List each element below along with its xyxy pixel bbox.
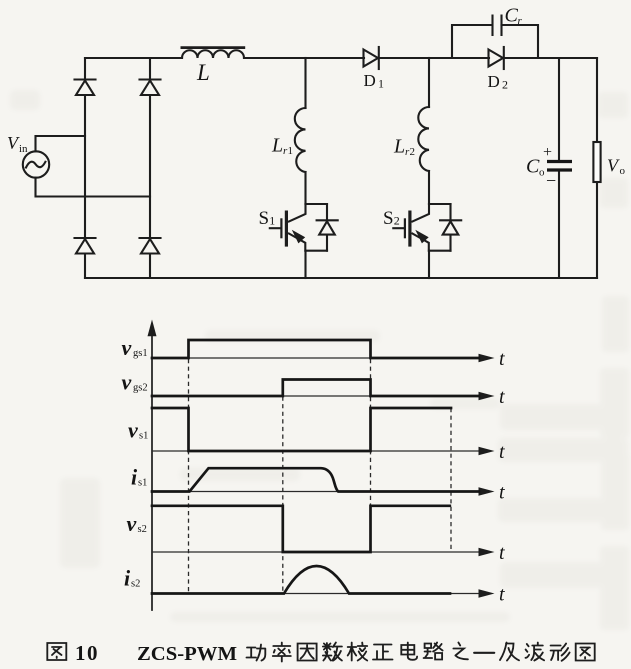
svg-text:L: L	[196, 60, 210, 85]
svg-text:v: v	[122, 335, 132, 360]
caption char 波	[526, 643, 545, 661]
caption figure number 图	[47, 643, 66, 660]
axis vertical	[151, 334, 153, 610]
wire bridge left leg	[84, 58, 86, 278]
svg-text:2: 2	[410, 146, 416, 158]
svg-text:D: D	[364, 71, 376, 90]
svg-text:t: t	[499, 348, 505, 370]
diode bridge bottom-right	[140, 238, 161, 254]
svg-text:C: C	[505, 5, 519, 27]
svg-text:+: +	[543, 144, 552, 161]
svg-text:i: i	[131, 465, 138, 490]
axis t row5	[152, 548, 495, 557]
wire Lr1 to S1	[304, 172, 306, 204]
caption char 校	[348, 643, 368, 661]
svg-text:r: r	[518, 15, 523, 27]
node Lr2 tee	[428, 58, 430, 107]
svg-text:in: in	[19, 143, 28, 155]
svg-text:gs1: gs1	[133, 348, 148, 359]
diode D2	[489, 47, 504, 69]
svg-text:s2: s2	[131, 579, 140, 590]
svg-text:10: 10	[75, 641, 98, 665]
caption char 路	[424, 643, 443, 660]
svg-text:2: 2	[502, 78, 508, 92]
svg-text:ZCS-PWM: ZCS-PWM	[137, 643, 237, 665]
caption char 电	[401, 643, 417, 660]
svg-text:D: D	[488, 72, 500, 91]
svg-text:s1: s1	[138, 478, 147, 489]
timing dashed line t2	[370, 359, 372, 552]
svg-text:C: C	[526, 156, 540, 178]
diode D1	[364, 47, 379, 69]
svg-text:o: o	[620, 165, 626, 177]
timing dashed line t1	[282, 397, 284, 594]
axis t row3	[152, 447, 495, 456]
axis t row6	[152, 589, 495, 598]
caption char 率	[273, 643, 291, 662]
svg-text:t: t	[499, 482, 505, 504]
svg-text:t: t	[499, 386, 505, 408]
wire Lr2 to S2	[428, 171, 430, 204]
trace is2	[152, 566, 450, 594]
svg-text:1: 1	[378, 77, 384, 91]
trace is1	[152, 468, 479, 491]
inductor L	[181, 46, 246, 58]
transistor S1 (IGBT)	[270, 204, 338, 278]
transistor S2 (IGBT)	[393, 204, 461, 278]
svg-text:t: t	[499, 441, 505, 463]
svg-text:s1: s1	[139, 431, 148, 442]
wire top rail	[85, 57, 597, 59]
AC source Vin	[23, 136, 150, 197]
timing dashed line t0	[188, 359, 190, 594]
svg-text:t: t	[499, 584, 505, 606]
svg-text:v: v	[128, 418, 138, 443]
diode bridge top-right	[140, 80, 161, 96]
svg-text:s2: s2	[138, 524, 147, 535]
axis t row2	[152, 392, 495, 401]
timing dashed line t3	[450, 408, 452, 552]
resistor load Vo	[593, 58, 600, 278]
caption char 正	[373, 645, 393, 660]
capacitor Co	[547, 58, 572, 278]
svg-text:1: 1	[269, 214, 275, 228]
svg-text:i: i	[124, 566, 131, 591]
svg-text:2: 2	[394, 214, 400, 228]
inductor Lr1	[295, 108, 306, 172]
svg-text:1: 1	[288, 145, 294, 157]
caption char 及	[500, 643, 519, 661]
caption char 数	[323, 643, 342, 661]
inductor Lr2	[418, 107, 429, 171]
trace vgs2	[152, 380, 479, 397]
svg-text:L: L	[393, 136, 405, 158]
trace vs1	[152, 408, 451, 451]
trace vs2	[152, 506, 450, 552]
node Lr1 tee	[304, 58, 306, 108]
svg-text:v: v	[127, 511, 137, 536]
svg-text:−: −	[546, 171, 556, 191]
trace vgs1	[152, 340, 479, 358]
svg-text:gs2: gs2	[133, 383, 148, 394]
svg-text:v: v	[122, 370, 132, 395]
wire bottom rail	[85, 277, 597, 279]
svg-text:o: o	[539, 167, 545, 179]
svg-text:S: S	[259, 208, 270, 229]
caption char 因	[298, 644, 317, 661]
caption char 一	[474, 652, 494, 654]
axis t row4	[152, 487, 495, 496]
diode bridge bottom-left	[75, 238, 96, 254]
caption char 形	[551, 644, 570, 661]
caption char 图 (end)	[576, 644, 595, 661]
svg-text:S: S	[383, 208, 394, 229]
diode bridge top-left	[75, 80, 96, 96]
axis t row1	[152, 354, 495, 363]
svg-text:L: L	[271, 135, 283, 157]
caption char 功	[247, 645, 266, 661]
caption char 之	[453, 643, 468, 660]
wire bridge right leg	[149, 58, 151, 278]
capacitor Cr bypass	[452, 16, 538, 59]
svg-text:t: t	[499, 542, 505, 564]
